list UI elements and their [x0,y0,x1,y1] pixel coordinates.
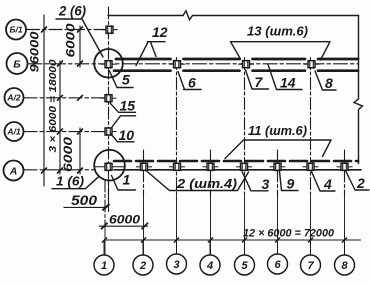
axis line А/1 [24,131,113,133]
svg-text:2: 2 [139,260,146,272]
column circle 8 [335,255,355,275]
column line 7 [310,58,312,197]
Б beam top chord (heavy, gaps at gussets) [116,58,358,61]
leader label 7 [246,70,269,89]
svg-text:2: 2 [356,175,365,191]
axis circle А/1 [5,122,24,141]
column circle 5 [235,255,255,275]
column line 3 [176,58,178,197]
dimension line 6000 lower segment [79,128,81,174]
svg-text:96000: 96000 [28,31,42,72]
column circle 1 [94,255,114,275]
leader label 4 [312,172,336,192]
axis circle А [4,161,24,181]
svg-text:6000: 6000 [61,137,75,172]
node detail circle at А row [94,150,125,181]
gusset square А col 4 [203,162,219,171]
dimension line 18000 [59,61,61,174]
dimension line 96000 [43,15,45,186]
leader label 6 [178,72,201,90]
svg-text:7: 7 [307,260,314,272]
leader label 1 [112,176,136,191]
column circle 4 [200,255,220,275]
axis circle Б/1 [6,20,26,40]
svg-text:Б/1: Б/1 [9,24,22,34]
right break (cut) boundary line [354,16,363,164]
axis circle Б [7,53,28,74]
gusset square А col 5 [236,162,252,171]
svg-text:Б: Б [13,58,21,70]
bracket label 11 (шт.6) [225,140,331,159]
dimension line 500 [64,206,108,208]
Б beam bottom chord (heavy, gaps at gussets) [114,69,358,72]
svg-text:А/1: А/1 [6,126,21,136]
gusset square А col 7 [303,162,319,171]
column circle 2 [133,255,153,275]
svg-text:А: А [9,165,18,177]
svg-text:4: 4 [323,176,332,192]
gusset square Б col 3 [169,60,185,69]
svg-text:10: 10 [119,127,135,143]
gusset square А col 8 [337,162,353,171]
bracket label 13 (шт.6) [231,42,331,60]
svg-text:14: 14 [280,75,296,91]
svg-text:2 (6): 2 (6) [58,3,86,19]
leader label 15 [110,103,135,127]
svg-text:3 × 6000 = 18000: 3 × 6000 = 18000 [47,59,59,152]
svg-text:4: 4 [206,260,213,272]
dimension line 6000 upper segment [79,26,81,67]
column line 2 [143,150,145,196]
leader label 2(6) top-left [56,19,103,57]
node detail circle at Б row [94,49,123,78]
dim ticks left chains [42,27,83,173]
axis line А/2 [24,97,113,99]
bracket label 2 (шт.4) [146,171,249,191]
svg-text:1: 1 [123,172,131,188]
dimension line 6000 bottom [99,225,148,227]
svg-text:5: 5 [122,72,130,88]
connector stems circles to dim line [104,240,345,255]
svg-text:13 (шт.6): 13 (шт.6) [247,23,308,38]
leader label 5 [109,71,133,88]
column circle 7 [301,255,321,275]
svg-text:7: 7 [255,74,264,90]
svg-text:3: 3 [262,176,270,192]
svg-text:12: 12 [152,24,168,40]
svg-text:6: 6 [188,75,196,91]
svg-text:6: 6 [274,259,281,271]
gusset square А col 1 [94,162,126,171]
column line 6 [277,150,279,196]
leader label 14 [268,65,302,90]
svg-text:5: 5 [241,260,248,272]
leader label 12 [136,42,165,66]
top break (cut) boundary line [108,11,359,20]
svg-text:8: 8 [325,75,333,91]
svg-text:9: 9 [287,176,295,192]
dimension line 12x6000=72000 [105,239,362,241]
leader label 3 [242,172,268,191]
column line 4 [210,150,212,196]
leader label 1 (6) [52,176,99,188]
axis circle А/2 [5,88,24,107]
column line 1 (dash-dot through all nodes) [108,7,110,207]
axis line Б/1 [27,29,118,31]
svg-text:8: 8 [341,260,348,272]
А row beam edge line (gaps at gussets) [114,169,361,171]
leader label 10 [111,134,134,142]
svg-text:6000: 6000 [64,23,78,57]
axis line Б (beam centerline) [28,63,358,65]
column line 5 [244,58,246,197]
svg-text:А/2: А/2 [6,92,21,102]
fastener square at А/1 [101,127,117,136]
gusset square А col 6 [270,162,286,171]
gusset square А col 3 [169,162,185,171]
rail end line (short, right of column 1) [108,180,110,212]
leader label 2 right [346,172,369,191]
svg-text:6000: 6000 [109,213,140,227]
leader label 8 [315,71,336,90]
А row crane rail (heavy dashed) [114,160,358,163]
svg-text:1: 1 [101,260,107,272]
axis line А [24,169,94,171]
gusset square Б col 1 [101,60,117,69]
svg-text:11 (шт.6): 11 (шт.6) [248,123,307,138]
gusset square Б col 7 [304,60,320,69]
svg-text:1 (6): 1 (6) [56,174,84,189]
leader label 9 [280,172,299,191]
gusset squares А row [94,162,353,171]
column circle 6 [268,254,288,274]
svg-text:15: 15 [120,98,136,114]
svg-text:2 (шт.4): 2 (шт.4) [176,176,237,191]
fastener square at А/2 [101,94,117,103]
column circle 3 [167,254,187,274]
column line 1 lower axis to circle 1 [104,180,106,228]
svg-text:500: 500 [71,192,97,208]
fastener square at Б/1 [102,25,118,34]
svg-text:12 × 6000 = 72000: 12 × 6000 = 72000 [243,228,335,240]
svg-text:3: 3 [173,259,179,271]
column line 8 [344,150,346,196]
gusset square Б col 5 [238,60,254,69]
gusset square А col 2 [136,162,152,171]
gusset squares Б row [101,60,320,69]
